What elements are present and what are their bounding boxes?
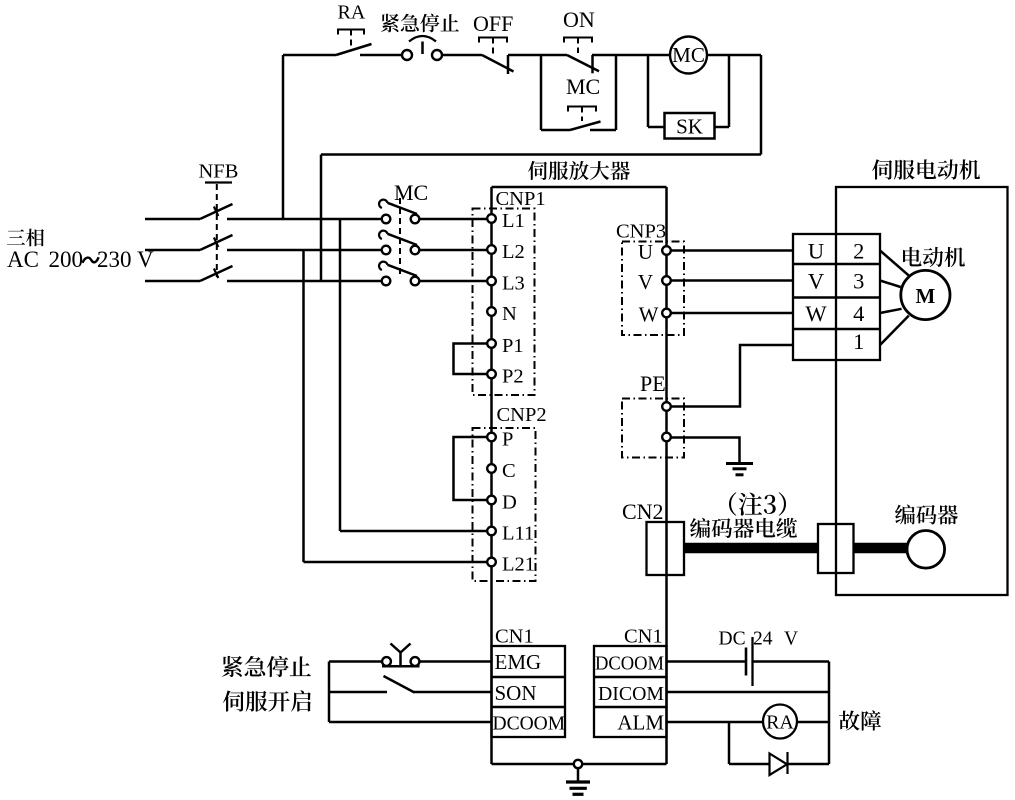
diode D (flyback) xyxy=(770,752,788,775)
wire L11 feed xyxy=(340,530,488,533)
connector CN1 right terminal box xyxy=(594,646,667,737)
breaker NFB pole 2 xyxy=(200,235,233,250)
wire button to OFF xyxy=(442,54,482,57)
wire L21 feed xyxy=(304,561,488,564)
contactor MC main contact pole 3 xyxy=(379,262,419,286)
svg-text:V: V xyxy=(784,629,798,650)
terminal L1 xyxy=(487,214,496,223)
wire EMG to CN1 xyxy=(420,660,492,663)
servo amplifier bottom edge xyxy=(492,763,667,766)
motor lead W xyxy=(880,309,902,313)
svg-text:CN2: CN2 xyxy=(622,499,664,524)
wire U to motor terminal block xyxy=(671,249,794,252)
auxiliary contact MC (self-holding) xyxy=(568,107,601,131)
connector CN1 left terminal box xyxy=(492,646,566,737)
svg-text:L3: L3 xyxy=(502,273,525,295)
wire self-hold right xyxy=(590,129,616,132)
terminal L2 xyxy=(487,245,496,254)
svg-text:L1: L1 xyxy=(502,210,525,232)
label servo motor xyxy=(872,159,892,179)
svg-text:DICOM: DICOM xyxy=(598,683,664,705)
terminal PE2 xyxy=(662,433,671,442)
phase wire 2 left segment xyxy=(145,249,200,252)
terminal PE1 xyxy=(662,402,671,411)
servo amplifier top edge xyxy=(492,186,667,189)
svg-text:U: U xyxy=(638,240,653,264)
svg-text:AC: AC xyxy=(7,247,39,272)
contactor MC dashed linkage xyxy=(399,198,401,277)
connector PE dashed outline xyxy=(622,399,684,458)
terminal D xyxy=(487,496,496,505)
label motor (Chinese) xyxy=(903,247,922,267)
svg-text:4: 4 xyxy=(853,301,864,326)
label DC 24 V xyxy=(719,629,799,650)
terminal L3 xyxy=(487,277,496,286)
label AC 200-230 V xyxy=(7,247,154,272)
svg-text:CN1: CN1 xyxy=(624,626,663,648)
terminal L21 xyxy=(487,558,496,567)
encoder circle xyxy=(907,531,945,569)
svg-text:EMG: EMG xyxy=(495,650,542,674)
self-hold branch left vertical xyxy=(540,55,543,130)
battery DC 24 V xyxy=(746,637,753,686)
label emergency stop (top) xyxy=(381,14,399,33)
svg-text:CNP2: CNP2 xyxy=(497,404,547,426)
emergency stop pushbutton (CN1) xyxy=(382,644,420,667)
label fault xyxy=(839,711,860,731)
terminal U xyxy=(662,246,671,255)
pushbutton OFF (normally closed) xyxy=(479,38,514,75)
servo motor outline box xyxy=(836,187,1008,595)
relay contact RA xyxy=(336,44,372,55)
earth ground (motor frame) xyxy=(726,464,753,475)
svg-text:NFB: NFB xyxy=(199,161,239,183)
phase wire 1 middle segment xyxy=(227,218,382,221)
svg-text:D: D xyxy=(502,492,517,514)
label note 3 xyxy=(729,492,736,515)
earth ground (amplifier) xyxy=(566,768,590,794)
svg-text:U: U xyxy=(808,239,824,264)
svg-text:W: W xyxy=(639,302,659,326)
terminal N xyxy=(487,307,496,316)
wire DCOOM to battery xyxy=(667,660,747,663)
svg-text:P2: P2 xyxy=(502,366,524,388)
motor terminal block outline xyxy=(793,234,880,360)
svg-text:L21: L21 xyxy=(502,554,535,576)
wire control rung left segment xyxy=(283,54,336,57)
svg-text:P1: P1 xyxy=(502,335,524,357)
phase wire 3 to CNP1 xyxy=(419,280,488,283)
svg-text:MC: MC xyxy=(566,74,600,99)
wire coil to right rail xyxy=(707,54,761,57)
switch SON (servo-on) xyxy=(384,676,415,693)
SK branch left vertical xyxy=(647,55,650,127)
svg-text:200: 200 xyxy=(49,247,84,272)
servo amplifier right bus line xyxy=(665,187,668,764)
control return rail down to phase L3 xyxy=(320,155,323,282)
bottom-left common vertical xyxy=(328,662,331,723)
wire PE1 to motor terminal 1 xyxy=(671,345,794,407)
svg-text:24: 24 xyxy=(753,629,773,650)
svg-text:RA: RA xyxy=(766,712,794,734)
svg-text:DC: DC xyxy=(719,629,746,650)
servo amplifier left bus line xyxy=(490,187,493,764)
terminal C xyxy=(487,464,496,473)
label emergency stop (bottom) xyxy=(222,656,243,677)
phase wire 3 left segment xyxy=(145,280,200,283)
phase wire 2 to CNP1 xyxy=(419,249,488,252)
svg-text:ON: ON xyxy=(563,7,595,32)
SK branch right vertical xyxy=(728,55,731,127)
connector CN2 body xyxy=(647,522,685,575)
label servo amplifier xyxy=(528,161,547,180)
label encoder xyxy=(895,504,915,524)
terminal P2 xyxy=(487,370,496,379)
wire SON to CN1 xyxy=(414,691,492,694)
CN1 left row dividers xyxy=(492,677,566,707)
wire ON to coil MC xyxy=(592,54,670,57)
motor lead 1 xyxy=(880,316,909,345)
wire SK to right branch xyxy=(715,126,730,129)
svg-text:C: C xyxy=(502,460,516,482)
svg-text:ALM: ALM xyxy=(617,711,664,735)
svg-text:L2: L2 xyxy=(502,241,525,263)
motor lead V xyxy=(880,281,901,288)
encoder cable (amplifier side) xyxy=(684,543,818,554)
wire battery to right rail xyxy=(753,660,830,663)
svg-text:3: 3 xyxy=(853,269,864,294)
wire self-hold left xyxy=(541,129,570,132)
encoder cable connector (motor side) xyxy=(818,524,854,573)
breaker NFB xyxy=(205,183,232,278)
emergency stop pushbutton (top) xyxy=(402,36,442,60)
jumper P-D xyxy=(454,437,488,500)
label encoder cable xyxy=(690,518,710,538)
svg-text:2: 2 xyxy=(853,239,864,264)
amplifier ground terminal xyxy=(574,760,582,768)
terminal V xyxy=(662,276,671,285)
diode branch vertical xyxy=(728,722,731,764)
encoder cable (encoder side) xyxy=(854,543,909,554)
contactor coil MC xyxy=(670,37,707,74)
motor M circle xyxy=(901,270,950,319)
wire DICOM xyxy=(667,691,830,694)
wire EMG left xyxy=(329,660,382,663)
breaker NFB pole 3 xyxy=(200,266,233,281)
breaker NFB pole 1 xyxy=(200,204,233,219)
surge absorber SK xyxy=(665,113,715,139)
motor lead U xyxy=(880,251,909,276)
contactor MC main contact pole 2 xyxy=(379,231,419,255)
phase wire 1 to CNP1 xyxy=(419,218,488,221)
terminal P1 xyxy=(487,339,496,348)
svg-text:CNP1: CNP1 xyxy=(496,188,546,210)
wire ALM to relay RA xyxy=(667,721,764,724)
jumper P1-P2 xyxy=(454,344,488,375)
wire V to motor terminal block xyxy=(671,279,794,282)
CN1 right row dividers xyxy=(594,677,667,707)
wire SON left xyxy=(329,691,387,694)
svg-text:N: N xyxy=(502,303,517,325)
relay coil RA xyxy=(763,705,797,739)
svg-text:CN1: CN1 xyxy=(495,626,534,648)
connector CNP3 dashed outline xyxy=(622,242,684,336)
wire RA to right rail xyxy=(797,721,829,724)
pushbutton ON (normally open) xyxy=(564,38,599,74)
wire DCOOM common xyxy=(329,721,492,724)
terminal P xyxy=(487,433,496,442)
control rung right rail xyxy=(760,55,763,155)
svg-text:OFF: OFF xyxy=(473,11,513,36)
branch L2 down to L21 xyxy=(302,250,305,562)
diode branch wire left xyxy=(729,763,770,766)
svg-text:SON: SON xyxy=(495,681,537,705)
terminal L11 xyxy=(487,527,496,536)
svg-text:MC: MC xyxy=(672,43,705,67)
label three-phase xyxy=(7,229,25,244)
wire to SK xyxy=(648,126,665,129)
connector CNP2 dashed outline xyxy=(473,428,536,581)
wire OFF to ON xyxy=(508,54,567,57)
terminal block row dividers xyxy=(793,264,880,329)
svg-text:DCOOM: DCOOM xyxy=(493,714,566,735)
control circuit bottom return wire xyxy=(321,153,761,156)
terminal W xyxy=(662,309,671,318)
diode branch wire right xyxy=(788,763,830,766)
phase wire 3 middle segment xyxy=(227,280,382,283)
self-hold branch right vertical xyxy=(615,55,618,130)
wire PE2 to earth xyxy=(671,438,740,464)
svg-text:RA: RA xyxy=(338,2,366,24)
svg-text:L11: L11 xyxy=(502,523,534,545)
svg-text:1: 1 xyxy=(853,329,864,354)
svg-text:SK: SK xyxy=(676,115,703,139)
svg-text:230: 230 xyxy=(97,247,132,272)
connector CNP1 dashed outline xyxy=(473,209,535,396)
svg-text:V: V xyxy=(808,269,824,294)
wire W to motor terminal block xyxy=(671,312,794,315)
svg-text:W: W xyxy=(805,301,827,326)
svg-text:M: M xyxy=(915,284,935,308)
branch L1 down to L11 xyxy=(339,219,342,531)
label servo on xyxy=(223,691,244,712)
svg-text:P: P xyxy=(502,429,513,451)
phase wire 2 middle segment xyxy=(227,249,382,252)
svg-text:V: V xyxy=(638,270,653,294)
phase wire 1 left segment xyxy=(145,218,200,221)
right rail vertical xyxy=(828,662,831,765)
contactor MC main contact pole 1 xyxy=(379,200,419,224)
control left rail down to phase L1 xyxy=(282,55,285,219)
svg-text:PE: PE xyxy=(640,371,666,396)
svg-text:DCOOM: DCOOM xyxy=(595,654,664,675)
